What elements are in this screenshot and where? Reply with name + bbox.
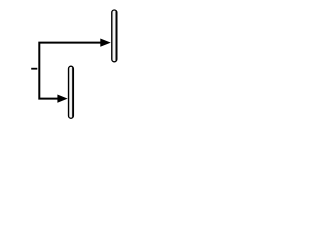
bottom electrode (cylinder bar) [69, 66, 74, 118]
arrowhead into bottom electrode [57, 95, 67, 103]
wire (branch to top and bottom electrodes) [39, 43, 101, 99]
input stub (left tick on vertical wire) [31, 68, 37, 70]
arrowhead into top electrode [100, 39, 111, 47]
top electrode (cylinder bar) [112, 10, 117, 62]
